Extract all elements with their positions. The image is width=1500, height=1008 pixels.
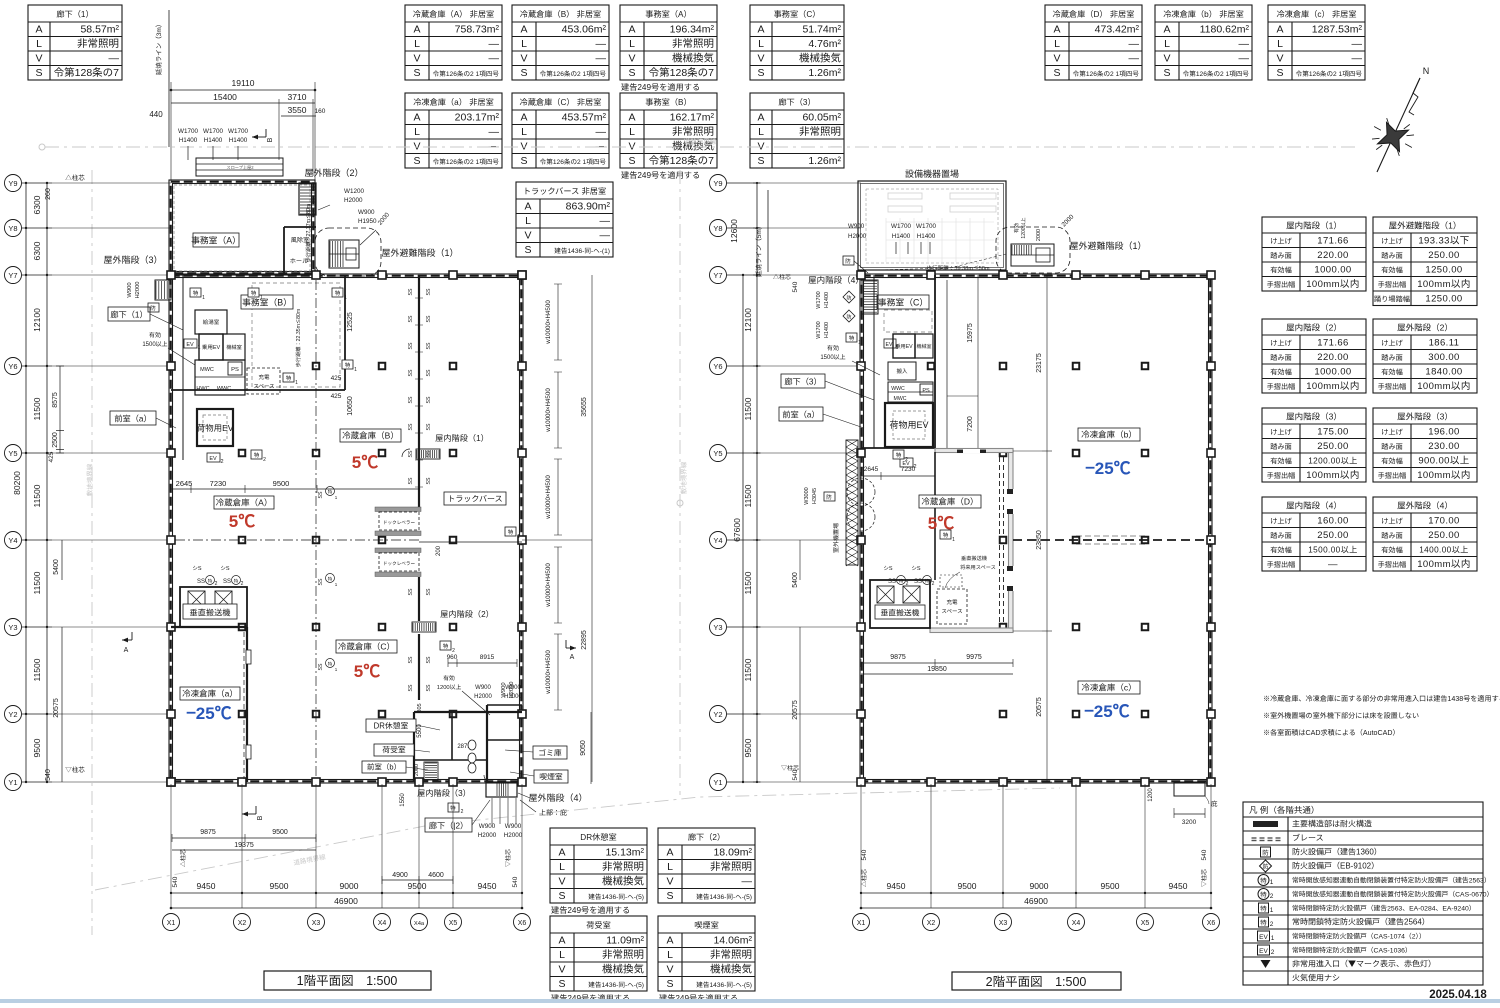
truck berth wall X4a [418, 275, 420, 507]
svg-text:X4: X4 [378, 918, 387, 928]
freezer a 1F [171, 626, 247, 628]
charge space 2F [937, 589, 967, 624]
svg-text:3200: 3200 [1182, 816, 1197, 826]
svg-text:6300: 6300 [31, 195, 43, 214]
svg-text:SS: SS [317, 491, 324, 498]
svg-text:H2000: H2000 [506, 681, 515, 698]
svg-text:搬入: 搬入 [896, 367, 908, 375]
svg-text:—: — [1239, 36, 1250, 51]
svg-text:前室（a）: 前室（a） [114, 413, 151, 425]
svg-text:特: 特 [254, 451, 260, 459]
wc fixtures [468, 740, 476, 750]
svg-text:L: L [414, 36, 420, 51]
svg-text:荷受室: 荷受室 [382, 745, 406, 756]
table 屋内階段（1） [1262, 217, 1366, 291]
svg-text:S: S [524, 242, 531, 257]
svg-text:常時開放感知器連動自動閉鎖装置付特定防火設備戸（建告2563: 常時開放感知器連動自動閉鎖装置付特定防火設備戸（建告2563） [1292, 875, 1491, 885]
svg-text:SS: SS [407, 477, 414, 484]
svg-text:11500: 11500 [742, 397, 754, 420]
dock leveler 2 [375, 548, 421, 553]
svg-text:上部：庇: 上部：庇 [539, 808, 567, 818]
svg-text:機械換気: 機械換気 [672, 51, 714, 66]
svg-text:58.57m²: 58.57m² [80, 22, 119, 37]
svg-text:A: A [666, 845, 673, 860]
svg-text:前室（b）: 前室（b） [367, 762, 401, 773]
svg-text:L: L [758, 36, 764, 51]
svg-text:手摺出幅: 手摺出幅 [1378, 560, 1407, 570]
svg-text:11500: 11500 [31, 658, 43, 681]
svg-text:L: L [667, 859, 673, 874]
table 喫煙室 [658, 916, 755, 1004]
svg-text:—: — [600, 213, 611, 228]
svg-text:V: V [524, 228, 531, 243]
svg-text:トラックバース: トラックバース [447, 494, 502, 505]
svg-text:SS: SS [425, 477, 432, 484]
svg-text:特: 特 [508, 528, 514, 536]
svg-text:常時開放感知器連動自動閉鎖装置付特定防火設備戸（CAS-06: 常時開放感知器連動自動閉鎖装置付特定防火設備戸（CAS-0670） [1292, 889, 1493, 899]
svg-text:2: 2 [241, 580, 244, 587]
svg-text:540: 540 [509, 876, 519, 887]
svg-text:SS: SS [407, 369, 414, 376]
svg-text:9875: 9875 [890, 652, 906, 662]
svg-text:540: 540 [789, 769, 799, 780]
svg-text:—: — [596, 51, 607, 66]
dim 2645 7230 9500 in A [171, 488, 419, 490]
svg-text:A: A [628, 110, 635, 125]
svg-text:SS: SS [407, 656, 414, 663]
dim row 46900 1F [171, 907, 522, 909]
svg-text:w10000×H4500: w10000×H4500 [543, 650, 552, 695]
svg-text:1250.00: 1250.00 [1425, 291, 1462, 305]
table 屋外階段（4） [1373, 497, 1477, 571]
svg-text:—: — [1129, 36, 1140, 51]
svg-text:1: 1 [896, 344, 899, 351]
svg-text:W900: W900 [358, 207, 375, 216]
jimushitsu B walls [344, 275, 346, 390]
section mark A right [566, 647, 576, 649]
svg-text:20575: 20575 [1034, 697, 1044, 717]
Y4 dashed separation 2F [1013, 539, 1211, 541]
svg-text:A: A [520, 110, 527, 125]
svg-text:11500: 11500 [742, 484, 754, 507]
svg-text:12525: 12525 [345, 312, 355, 332]
svg-text:屋外階段（4）: 屋外階段（4） [1397, 500, 1453, 512]
svg-text:非常照明: 非常照明 [799, 124, 841, 139]
EV2 label 2F [900, 458, 913, 467]
svg-text:冷蔵倉庫（C）: 冷蔵倉庫（C） [338, 641, 395, 653]
svg-text:建告249号を適用する: 建告249号を適用する [621, 81, 700, 93]
svg-text:SS: SS [425, 588, 432, 595]
top dimension lines [171, 89, 315, 91]
svg-text:屋外避難階段（1）: 屋外避難階段（1） [1389, 220, 1462, 232]
svg-text:W1700: W1700 [814, 291, 822, 308]
svg-text:1階平面図 1:500: 1階平面図 1:500 [297, 970, 398, 989]
svg-text:有効幅: 有効幅 [1270, 266, 1292, 276]
svg-text:△柱芯: △柱芯 [178, 849, 187, 867]
svg-text:特: 特 [193, 289, 199, 297]
dim row 46900 2F [861, 907, 1211, 909]
svg-text:特: 特 [849, 334, 855, 342]
svg-text:常時閉鎖特定防火設備戸（CAS-1036）: 常時閉鎖特定防火設備戸（CAS-1036） [1292, 945, 1412, 955]
svg-text:20575: 20575 [51, 698, 61, 718]
2F wall columns [857, 271, 865, 279]
svg-text:—: — [1239, 51, 1250, 66]
svg-text:W1700: W1700 [178, 126, 198, 135]
svg-text:歩行距離：27.37m≤80m: 歩行距離：27.37m≤80m [305, 204, 312, 263]
svg-text:171.66: 171.66 [1317, 233, 1348, 247]
svg-text:令第126条の2 1項四号: 令第126条の2 1項四号 [1183, 68, 1250, 78]
svg-text:100mm以内: 100mm以内 [1417, 467, 1470, 481]
svg-text:540: 540 [789, 281, 799, 292]
svg-text:S: S [628, 153, 635, 168]
X grid circles 1F [163, 914, 180, 931]
svg-text:機械換気: 機械換気 [602, 874, 644, 889]
svg-text:1: 1 [295, 379, 298, 386]
svg-text:踏み面: 踏み面 [1381, 353, 1403, 363]
left sub dimensions [59, 366, 61, 453]
svg-text:手摺出幅: 手摺出幅 [1267, 280, 1296, 290]
svg-text:け上げ: け上げ [1381, 517, 1403, 527]
svg-text:1840.00: 1840.00 [1425, 364, 1462, 378]
svg-text:X4: X4 [1072, 918, 1081, 928]
svg-text:1: 1 [202, 294, 205, 301]
svg-text:防: 防 [845, 257, 851, 265]
svg-text:9050: 9050 [578, 740, 588, 756]
svg-text:Y4: Y4 [8, 535, 17, 546]
EV1 label [184, 339, 197, 348]
svg-text:H1400: H1400 [822, 292, 830, 308]
svg-text:S: S [757, 153, 764, 168]
svg-text:SS: SS [223, 576, 231, 585]
section mark B bottom [242, 813, 256, 815]
svg-text:S: S [413, 153, 420, 168]
svg-text:A: A [570, 652, 575, 662]
svg-text:171.66: 171.66 [1317, 335, 1348, 349]
svg-text:—: — [1129, 51, 1140, 66]
core rooms 1F [182, 275, 184, 460]
svg-text:有効幅: 有効幅 [1381, 457, 1403, 467]
svg-text:防: 防 [150, 304, 156, 312]
svg-text:1200以上: 1200以上 [437, 682, 462, 691]
road boundary line (top) [39, 136, 1360, 150]
svg-text:B: B [265, 137, 275, 142]
svg-text:V: V [413, 51, 420, 66]
svg-text:A: A [558, 845, 565, 860]
svg-text:令第126条の2 1項四号: 令第126条の2 1項四号 [540, 156, 607, 166]
svg-text:H1400: H1400 [822, 322, 830, 338]
svg-text:X6: X6 [518, 918, 527, 928]
svg-text:庇: 庇 [1211, 798, 1218, 808]
svg-text:—: — [489, 124, 500, 139]
svg-text:SS: SS [888, 576, 896, 585]
svg-text:S: S [1053, 65, 1060, 80]
svg-text:V: V [1276, 51, 1283, 66]
svg-text:トラックバース 非居室: トラックバース 非居室 [523, 185, 606, 197]
svg-text:有効幅: 有効幅 [1270, 546, 1292, 556]
brace dashed lines inside D wall [999, 457, 1001, 535]
svg-text:け上げ: け上げ [1381, 339, 1403, 349]
svg-text:Y8: Y8 [713, 223, 722, 234]
svg-text:L: L [525, 213, 531, 228]
svg-text:S: S [520, 65, 527, 80]
svg-text:シS: シS [220, 564, 230, 572]
svg-text:23850: 23850 [1034, 530, 1044, 550]
front room a label [110, 411, 156, 425]
table 冷凍倉庫（c） 非居室 [1268, 5, 1365, 80]
svg-text:162.17m²: 162.17m² [670, 110, 715, 125]
2F corridor labels [781, 374, 825, 388]
svg-text:80200: 80200 [11, 471, 23, 495]
svg-text:8575: 8575 [50, 392, 60, 408]
svg-text:事務室（C）: 事務室（C） [774, 8, 821, 20]
svg-text:S: S [413, 65, 420, 80]
svg-text:喫煙室: 喫煙室 [694, 919, 719, 931]
svg-text:け上げ: け上げ [1381, 237, 1403, 247]
svg-text:20575: 20575 [790, 700, 800, 720]
svg-text:非常照明: 非常照明 [77, 36, 119, 51]
bottom blue strip [0, 999, 1500, 1003]
svg-text:9500: 9500 [273, 478, 290, 489]
svg-text:冷蔵倉庫（D）: 冷蔵倉庫（D） [921, 496, 978, 508]
svg-text:11500: 11500 [742, 658, 754, 681]
svg-text:道路境界線: 道路境界線 [684, 136, 717, 146]
svg-text:Y9: Y9 [713, 178, 722, 189]
svg-text:防火設備戸（EB-9102）: 防火設備戸（EB-9102） [1292, 861, 1379, 872]
svg-text:冷蔵倉庫（B）: 冷蔵倉庫（B） [342, 430, 399, 442]
svg-text:凡 例（各階共通）: 凡 例（各階共通） [1249, 804, 1319, 816]
svg-text:MWC: MWC [894, 395, 907, 402]
outdoor evacuation stair 1 (1F) [315, 228, 381, 276]
svg-text:機械換気: 機械換気 [799, 51, 841, 66]
svg-text:荷受室: 荷受室 [586, 919, 611, 931]
svg-text:令第128条の7: 令第128条の7 [649, 153, 715, 168]
svg-text:屋外階段（4）: 屋外階段（4） [528, 791, 587, 804]
svg-text:SS: SS [407, 396, 414, 403]
svg-text:廊下（1）: 廊下（1） [56, 8, 93, 20]
charge space [247, 368, 280, 394]
svg-text:9450: 9450 [1169, 880, 1188, 892]
svg-text:有効: 有効 [1013, 223, 1020, 233]
svg-text:SS: SS [425, 369, 432, 376]
svg-text:2: 2 [1270, 918, 1274, 928]
svg-text:け上げ: け上げ [1270, 517, 1292, 527]
svg-text:非常照明: 非常照明 [710, 947, 752, 962]
svg-text:W1700: W1700 [916, 221, 936, 230]
svg-text:DR休憩室: DR休憩室 [374, 721, 409, 732]
svg-text:SS: SS [197, 576, 205, 585]
svg-text:H2000: H2000 [474, 691, 492, 700]
svg-text:V: V [666, 962, 673, 977]
svg-text:11500: 11500 [742, 571, 754, 594]
svg-text:ドックレベラー: ドックレベラー [383, 561, 416, 567]
svg-text:Y9: Y9 [8, 178, 17, 189]
svg-text:23175: 23175 [1034, 353, 1044, 373]
dim 960 8915 [448, 662, 517, 664]
section mark A left [122, 639, 132, 641]
svg-text:9000: 9000 [1030, 880, 1049, 892]
svg-text:常時閉鎖特定防火設備戸（CAS-1074（2））: 常時閉鎖特定防火設備戸（CAS-1074（2）） [1292, 931, 1426, 941]
svg-text:12100: 12100 [31, 308, 43, 332]
svg-text:屋内階段（2）: 屋内階段（2） [1286, 322, 1342, 334]
svg-text:延焼ライン（5m）: 延焼ライン（5m） [753, 223, 763, 278]
svg-text:令第126条の2 1項四号: 令第126条の2 1項四号 [1296, 68, 1363, 78]
svg-text:5400: 5400 [790, 572, 800, 588]
svg-text:EV: EV [1259, 945, 1268, 955]
svg-text:手摺出幅: 手摺出幅 [1267, 471, 1296, 481]
extension line enshou 3m [168, 10, 170, 147]
room label B [340, 429, 401, 442]
svg-text:令第126条の2 1項四号: 令第126条の2 1項四号 [540, 68, 607, 78]
dim 2645 7230 2F [861, 475, 935, 477]
svg-text:1.26m²: 1.26m² [808, 153, 841, 168]
svg-text:1: 1 [260, 294, 263, 301]
svg-text:特: 特 [335, 289, 341, 297]
bofu box top left 2F [843, 256, 854, 265]
outdoor stair 3 [155, 280, 171, 300]
table 冷凍倉庫（b） 非居室 [1155, 5, 1252, 80]
svg-text:歩行距離：39.38m≤50m: 歩行距離：39.38m≤50m [926, 264, 989, 272]
svg-text:令第126条の2 1項四号: 令第126条の2 1項四号 [433, 68, 500, 78]
svg-text:11500: 11500 [31, 571, 43, 594]
svg-text:−25℃: −25℃ [186, 699, 231, 724]
svg-text:スペース: スペース [941, 607, 962, 615]
svg-text:Y3: Y3 [713, 622, 722, 633]
svg-text:け上げ: け上げ [1270, 428, 1292, 438]
svg-text:屋内階段（2）: 屋内階段（2） [440, 608, 494, 620]
svg-text:L: L [36, 36, 42, 51]
svg-text:15975: 15975 [965, 323, 975, 343]
truck berth label [444, 492, 506, 505]
svg-text:S: S [558, 976, 565, 991]
2F core walls [934, 275, 936, 448]
svg-text:1500以上: 1500以上 [820, 352, 845, 361]
table 屋内階段（3） [1262, 408, 1366, 482]
left dimension lines [25, 183, 27, 782]
svg-text:V: V [757, 139, 764, 154]
svg-text:35655: 35655 [579, 397, 589, 417]
cold D walls gray [1009, 449, 1014, 632]
svg-text:22895: 22895 [579, 630, 589, 650]
svg-text:2645: 2645 [864, 463, 879, 473]
svg-text:300.00: 300.00 [1428, 349, 1459, 363]
2F conveyor room [870, 580, 930, 628]
svg-text:—: — [600, 228, 611, 243]
svg-text:※冷蔵倉庫、冷凍倉庫に面する部分の非常用進入口は建告1438: ※冷蔵倉庫、冷凍倉庫に面する部分の非常用進入口は建告1438号を適用する [1263, 694, 1500, 704]
svg-text:特: 特 [251, 289, 257, 297]
indoor stair 2 [412, 622, 436, 632]
svg-text:特: 特 [925, 579, 930, 585]
svg-text:V: V [1053, 51, 1060, 66]
svg-text:—: — [596, 139, 607, 154]
svg-text:防: 防 [1262, 862, 1268, 871]
svg-text:Y6: Y6 [8, 361, 17, 372]
svg-text:1200: 1200 [1145, 788, 1154, 802]
north compass [1371, 64, 1429, 172]
svg-text:手摺出幅: 手摺出幅 [1267, 560, 1296, 570]
svg-text:建告1436-同-ヘ-(1): 建告1436-同-ヘ-(1) [554, 245, 610, 255]
svg-text:Y5: Y5 [8, 448, 17, 459]
table 冷蔵倉庫（D） 非居室 [1045, 5, 1142, 80]
svg-text:1000.00: 1000.00 [1314, 364, 1351, 378]
svg-text:SS: SS [407, 450, 414, 457]
table 屋内階段（4） [1262, 497, 1366, 571]
svg-text:7230: 7230 [901, 463, 916, 473]
svg-text:冷凍倉庫（b） 非居室: 冷凍倉庫（b） 非居室 [1163, 8, 1244, 20]
svg-text:V: V [558, 874, 565, 889]
svg-text:X3: X3 [999, 918, 1008, 928]
title 2F [952, 971, 1121, 990]
svg-text:A: A [628, 22, 635, 37]
notes [1263, 694, 1500, 738]
svg-text:SS: SS [425, 315, 432, 322]
svg-text:9500: 9500 [31, 738, 43, 757]
outdoor evacuation stair 1 (2F) [996, 227, 1070, 273]
svg-text:喫煙室: 喫煙室 [539, 772, 563, 783]
svg-text:有効幅: 有効幅 [1270, 368, 1292, 378]
svg-text:1200.00以上: 1200.00以上 [1308, 455, 1358, 467]
svg-text:540: 540 [858, 849, 868, 860]
svg-text:シS: シS [911, 564, 921, 572]
svg-text:1: 1 [1271, 932, 1275, 942]
svg-text:▽柱芯: ▽柱芯 [1199, 869, 1208, 887]
svg-text:−25℃: −25℃ [1084, 697, 1129, 722]
svg-text:H3045: H3045 [810, 488, 818, 504]
room label C [336, 640, 397, 653]
svg-text:非常照明: 非常照明 [672, 36, 714, 51]
svg-text:9500: 9500 [270, 880, 289, 892]
svg-text:廊下（2）: 廊下（2） [688, 831, 725, 843]
svg-text:H2000: H2000 [504, 830, 523, 839]
svg-text:L: L [414, 124, 420, 139]
svg-text:廊下（3）: 廊下（3） [784, 376, 821, 388]
svg-text:9875: 9875 [200, 827, 216, 837]
svg-text:有効幅: 有効幅 [1381, 266, 1403, 276]
svg-text:L: L [1164, 36, 1170, 51]
svg-text:△柱芯: △柱芯 [859, 869, 868, 887]
svg-text:X5: X5 [449, 918, 458, 928]
canopy slope roof [196, 158, 283, 176]
svg-text:1500.00以上: 1500.00以上 [1308, 544, 1358, 556]
svg-text:EV: EV [186, 340, 194, 348]
svg-text:非常用進入口（▼マーク表示、赤色灯）: 非常用進入口（▼マーク表示、赤色灯） [1292, 959, 1436, 970]
svg-text:A: A [413, 22, 420, 37]
svg-text:9975: 9975 [966, 652, 982, 662]
svg-text:機械室: 機械室 [916, 343, 931, 350]
svg-text:荷物用EV: 荷物用EV [197, 422, 234, 434]
svg-text:X2: X2 [927, 918, 936, 928]
svg-text:給湯室: 給湯室 [203, 318, 220, 326]
svg-text:充電: 充電 [946, 598, 958, 606]
svg-text:1: 1 [1270, 904, 1274, 914]
svg-text:1250.00: 1250.00 [1425, 262, 1462, 276]
svg-text:5℃: 5℃ [928, 509, 954, 534]
svg-text:193.33以下: 193.33以下 [1418, 233, 1469, 247]
svg-text:1: 1 [952, 536, 955, 543]
svg-text:2000: 2000 [412, 764, 420, 776]
bofu diamonds left wall [843, 291, 855, 303]
svg-text:シS: シS [883, 564, 893, 572]
svg-text:DR休憩室: DR休憩室 [580, 831, 616, 843]
svg-text:垂直搬送機: 垂直搬送機 [961, 555, 988, 562]
svg-text:L: L [758, 124, 764, 139]
svg-text:540: 540 [169, 876, 179, 887]
svg-text:Y7: Y7 [8, 270, 17, 281]
svg-text:W900: W900 [505, 821, 522, 830]
svg-text:A: A [413, 110, 420, 125]
svg-text:A: A [524, 199, 531, 214]
road boundary line (diagonal bottom) [95, 788, 1060, 890]
svg-text:令第128条の7: 令第128条の7 [649, 65, 715, 80]
